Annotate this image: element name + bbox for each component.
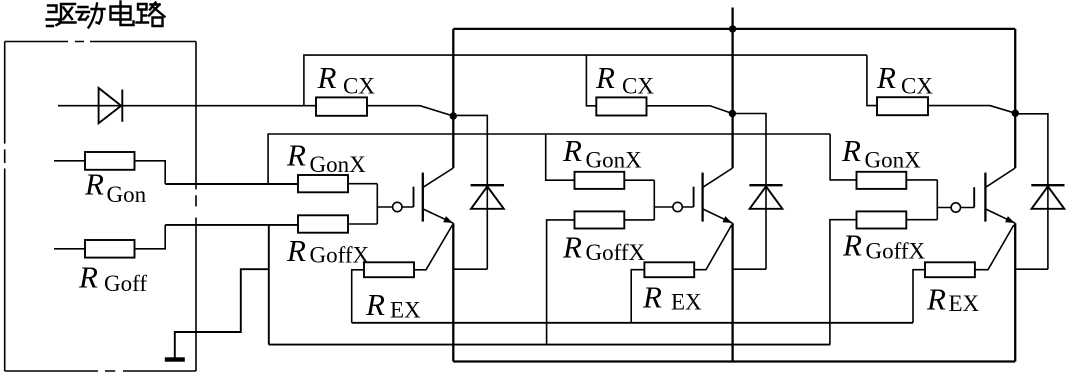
wire: RGonX2 right lead [624, 179, 654, 181]
svg-text:GonX: GonX [586, 148, 643, 173]
gate circle Q2 [673, 202, 682, 211]
gate feed bus [268, 134, 830, 184]
resistor RGon [85, 152, 135, 170]
RCX input bus [304, 55, 867, 106]
wire: RCX3 output to collector node [928, 106, 1015, 114]
wire: RGoffX2 right lead [624, 219, 654, 221]
node: collector junction 2 [729, 110, 736, 117]
IGBT Q1 [414, 168, 454, 223]
drive circuit label: 动 [77, 4, 105, 28]
resistor RGoffX1 [298, 215, 348, 232]
gate circle Q1 [393, 202, 402, 211]
drive circuit label: 路 [137, 3, 165, 27]
resistor RCX3 [877, 97, 928, 115]
wire: RCX1 output to collector node [367, 106, 453, 116]
drive circuit label: 电 [111, 2, 134, 26]
ground [165, 357, 185, 361]
RGoffX return bus [269, 344, 830, 346]
svg-text:R: R [365, 287, 385, 322]
collector bus [453, 28, 1015, 30]
emitter bus [453, 360, 1015, 362]
label REX3 [926, 282, 980, 317]
svg-text:EX: EX [390, 298, 421, 323]
svg-text:R: R [84, 166, 104, 201]
label RGonX2 [562, 133, 642, 172]
wire: REX3 to emitter [975, 225, 1014, 270]
svg-text:GoffX: GoffX [310, 243, 370, 268]
gate circle Q3 [951, 203, 960, 212]
wire: gate tie vertical 3 [936, 180, 938, 220]
svg-text:R: R [78, 260, 98, 295]
svg-text:GonX: GonX [865, 147, 922, 172]
label RCX3 [876, 60, 933, 99]
wire: emitter drop Q2 [731, 223, 733, 361]
wire: D1 anode return [453, 268, 487, 270]
wire: D3 anode return [1015, 268, 1048, 270]
resistor RGonX2 [575, 172, 625, 189]
svg-text:EX: EX [949, 291, 980, 316]
drive circuit label: 驱 [47, 4, 76, 26]
svg-text:R: R [317, 60, 337, 95]
resistor REX3 [925, 262, 975, 277]
label RGoffX2 [562, 230, 646, 266]
wire: gate-off bus down jog [268, 225, 270, 345]
wire: gate lead Q1 [377, 206, 413, 208]
wire: diode D3 branch [1015, 114, 1048, 269]
label RGonX3 [841, 133, 921, 172]
label RGoff [78, 260, 147, 297]
wire: RGoffX2 output leg [547, 220, 575, 345]
svg-text:Goff: Goff [104, 271, 147, 296]
resistor RGoff [85, 240, 135, 258]
wire: RGoff output to gate-off bus [135, 225, 166, 249]
wire: RGoffX3 output leg [830, 220, 857, 345]
wire: D2 anode return [733, 268, 766, 270]
label RGoffX3 [842, 228, 926, 264]
svg-text:Gon: Gon [107, 182, 147, 207]
node: collector bus junction [729, 25, 736, 32]
label REX2 [642, 280, 702, 315]
svg-text:GonX: GonX [310, 152, 367, 177]
label RGonX1 [286, 138, 366, 177]
diode D2 [749, 185, 782, 209]
label RGon [84, 166, 147, 207]
wire: RCX3 input leg [867, 55, 877, 106]
wire: RGonX2 input leg [546, 134, 575, 180]
wire: RGonX3 right lead [906, 179, 937, 181]
wire: driver output through diode to RCX1 [58, 105, 316, 107]
svg-text:GoffX: GoffX [866, 239, 926, 264]
diode D3 [1031, 185, 1064, 209]
drive circuit box top edge [5, 41, 196, 43]
resistor RGonX3 [857, 172, 907, 189]
wire: ground jog [175, 269, 269, 357]
svg-text:R: R [642, 280, 662, 315]
wire: REX2 left lead [631, 270, 644, 323]
node: collector junction 1 [450, 112, 457, 119]
wire: RGoffX1 right lead [348, 223, 377, 225]
wire: emitter drop Q1 [452, 223, 454, 361]
IGBT Q3 [974, 168, 1015, 223]
wire: collector riser Q1 [452, 29, 454, 168]
wire: gate tie vertical 1 [376, 184, 378, 224]
resistor RGonX1 [298, 175, 348, 192]
gate-off bus [165, 224, 298, 226]
svg-text:GoffX: GoffX [586, 240, 646, 265]
collector terminal stub [731, 8, 733, 29]
wire: RGonX3 input leg [830, 134, 856, 180]
resistor REX1 [364, 262, 414, 277]
wire: gate tie vertical 2 [653, 180, 655, 220]
svg-text:R: R [286, 138, 306, 173]
svg-text:R: R [595, 60, 615, 95]
node: collector junction 3 [1012, 110, 1019, 117]
wire: RGonX1 right lead [348, 183, 377, 185]
label RCX2 [595, 60, 654, 99]
wire: REX1 left lead [352, 270, 364, 323]
diode D1 [471, 185, 504, 209]
wire: diode D1 branch [453, 115, 487, 269]
resistor RCX1 [316, 97, 367, 115]
svg-text:CX: CX [622, 74, 654, 99]
drive circuit box left edge [4, 42, 6, 372]
IGBT Q2 [694, 168, 733, 223]
wire: collector riser Q2 [731, 29, 733, 168]
resistor RCX2 [596, 97, 646, 115]
wire: RGoff left lead [54, 248, 85, 250]
wire: REX3 left lead [913, 270, 925, 323]
wire: RGoffX3 right lead [906, 219, 937, 221]
svg-text:R: R [926, 282, 946, 317]
wire: gate lead Q3 [937, 207, 974, 209]
wire: REX2 to emitter [694, 225, 731, 270]
svg-text:R: R [842, 228, 862, 263]
wire: RGon left lead [54, 160, 85, 162]
wire: collector riser Q3 [1014, 29, 1016, 168]
resistor RGoffX3 [857, 211, 907, 228]
svg-text:R: R [562, 230, 582, 265]
resistor RGoffX2 [575, 211, 625, 228]
diode D0 [99, 88, 123, 123]
svg-text:R: R [876, 60, 896, 95]
label REX1 [365, 287, 421, 323]
svg-text:CX: CX [901, 74, 933, 99]
svg-text:R: R [841, 133, 861, 168]
svg-text:R: R [286, 233, 306, 268]
label RGoffX1 [286, 233, 370, 268]
wire: gate lead Q2 [654, 206, 693, 208]
drive circuit box right edge [195, 42, 197, 372]
wire: REX1 to emitter [414, 225, 452, 270]
resistor REX2 [644, 262, 694, 277]
svg-text:CX: CX [343, 74, 375, 99]
REX sense bus [352, 322, 913, 324]
drive circuit box bottom edge [5, 370, 196, 372]
wire: RCX2 input leg [586, 55, 596, 106]
svg-text:R: R [562, 133, 582, 168]
gate-on bus [165, 183, 298, 185]
wire: RCX2 output to collector node [647, 106, 733, 114]
wire: RGon output to gate-on bus [135, 161, 166, 184]
wire: diode D2 branch [732, 114, 766, 270]
svg-text:EX: EX [671, 290, 702, 315]
label RCX1 [317, 60, 376, 99]
wire: emitter drop Q3 [1014, 223, 1016, 361]
